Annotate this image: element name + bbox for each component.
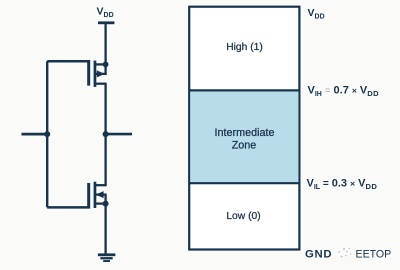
wire PMOS drain to NMOS drain xyxy=(104,84,106,186)
svg-text:VDD: VDD xyxy=(97,6,114,20)
watermark EETOP icon xyxy=(338,248,351,258)
wire output xyxy=(106,133,132,136)
wire NMOS source to ground xyxy=(104,204,106,254)
wire VDD to PMOS source/body xyxy=(104,23,106,75)
svg-text:GND: GND xyxy=(305,249,332,261)
wire gate to PMOS xyxy=(47,60,89,63)
power VDD terminal bar xyxy=(98,21,114,24)
logic-level box outline xyxy=(189,7,299,250)
svg-text:Low (0): Low (0) xyxy=(226,211,260,222)
node input junction xyxy=(44,131,50,137)
wire input xyxy=(22,133,48,136)
wire gate to NMOS xyxy=(47,206,89,209)
svg-text:VIL = 0.3 × VDD: VIL = 0.3 × VDD xyxy=(307,178,378,191)
node output junction xyxy=(103,131,109,137)
wire VIH divider xyxy=(189,89,299,91)
transistor Q2 NMOS xyxy=(87,182,106,209)
svg-text:Zone: Zone xyxy=(232,140,257,152)
svg-text:EETOP: EETOP xyxy=(356,249,392,261)
svg-text:Intermediate: Intermediate xyxy=(214,127,274,139)
wire NMOS body tie xyxy=(104,195,106,204)
wire gate bus xyxy=(46,61,48,207)
svg-text:High (1): High (1) xyxy=(226,42,263,53)
node PMOS body-source tie xyxy=(103,62,109,68)
ground xyxy=(98,253,116,262)
svg-text:VDD: VDD xyxy=(308,7,325,21)
svg-text:VIH = 0.7 × VDD: VIH = 0.7 × VDD xyxy=(308,85,380,98)
intermediate zone fill xyxy=(190,90,298,183)
transistor Q1 PMOS xyxy=(87,60,106,87)
node NMOS body-source tie xyxy=(103,201,109,207)
wire VIL divider xyxy=(189,182,299,184)
